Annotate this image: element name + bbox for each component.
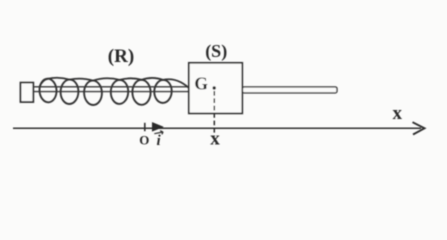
axis arrowhead — [413, 122, 425, 134]
spring coil loop 6 — [154, 79, 173, 103]
wall anchor bracket — [21, 83, 34, 102]
svg-text:O: O — [139, 133, 149, 148]
spring coil loop 3 — [84, 80, 103, 105]
dashed line from G down to axis — [213, 91, 215, 135]
origin tick — [144, 123, 146, 131]
node G center dot — [213, 86, 216, 89]
block S — [189, 63, 243, 114]
svg-text:(R): (R) — [108, 46, 134, 67]
svg-text:x: x — [210, 128, 220, 149]
spring coil loop 4 — [110, 80, 128, 105]
rod left segment lower line — [34, 91, 189, 93]
spring coil loop 2 — [60, 79, 79, 104]
spring coil loop 5 — [132, 80, 151, 105]
spring coil loop 1 — [39, 78, 57, 102]
svg-text:x: x — [393, 103, 403, 124]
unit vector i arrowhead — [152, 122, 163, 131]
rod left segment upper line — [34, 86, 189, 88]
spring top connecting wave — [40, 78, 192, 91]
x axis line — [13, 127, 421, 129]
svg-text:i: i — [157, 133, 162, 149]
vector bar with arrow over i — [154, 131, 163, 135]
rod right segment — [242, 87, 337, 93]
svg-text:G: G — [194, 73, 208, 93]
svg-text:(S): (S) — [205, 41, 227, 62]
